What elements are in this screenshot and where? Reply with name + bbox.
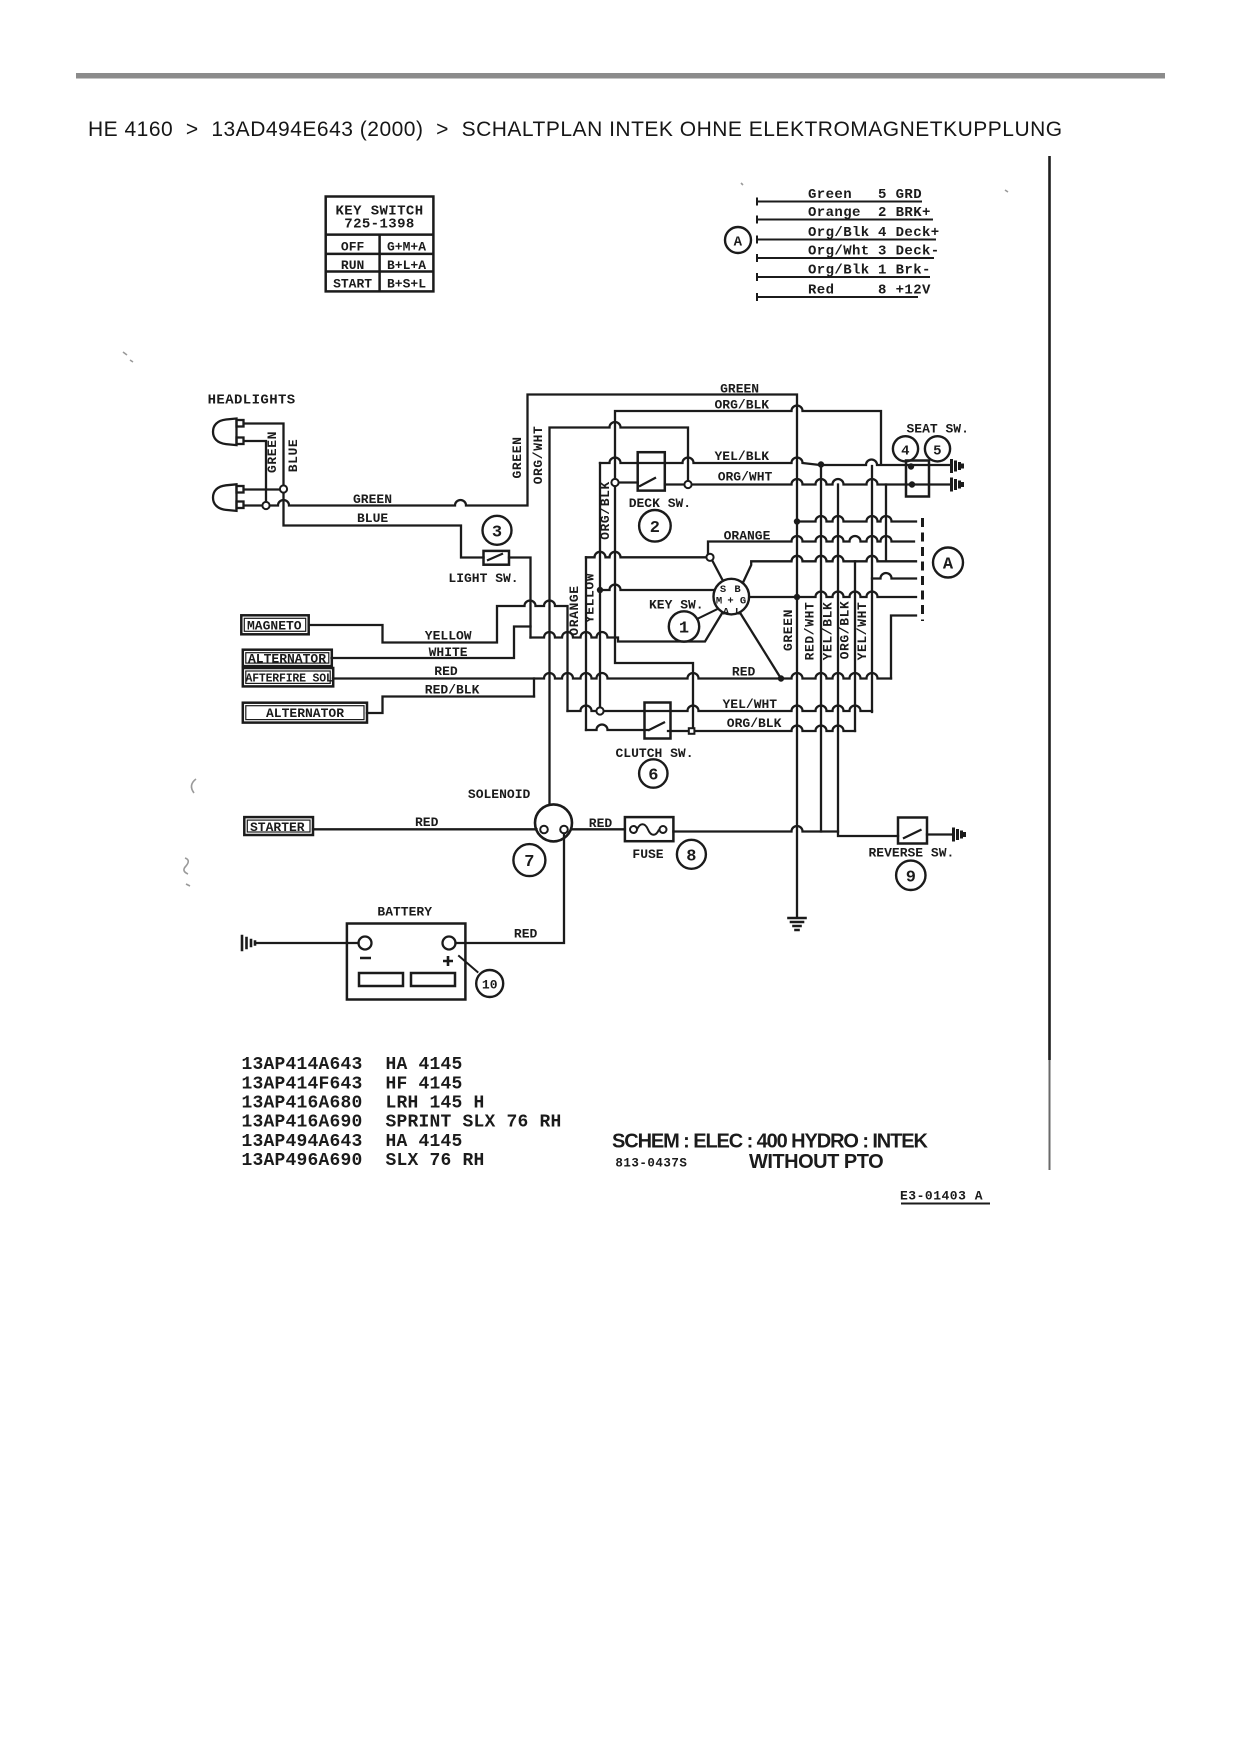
- svg-text:BATTERY: BATTERY: [377, 905, 432, 920]
- svg-text:ORG/BLK: ORG/BLK: [598, 481, 613, 540]
- svg-text:A: A: [734, 235, 743, 251]
- svg-text:ORANGE: ORANGE: [724, 529, 771, 544]
- svg-text:BLUE: BLUE: [357, 511, 388, 526]
- svg-text:REVERSE SW.: REVERSE SW.: [869, 846, 955, 861]
- svg-text:813-0437S: 813-0437S: [615, 1157, 687, 1171]
- svg-text:RED/BLK: RED/BLK: [425, 683, 480, 698]
- svg-text:HE 4160 > 13AD494E643 (2000): HE 4160 > 13AD494E643 (2000) > SCHALTPLA…: [88, 118, 1063, 141]
- svg-text:13AP494A643: 13AP494A643: [242, 1132, 363, 1152]
- svg-text:4 Deck+: 4 Deck+: [878, 225, 940, 241]
- svg-text:GREEN: GREEN: [265, 431, 280, 473]
- svg-text:Org/Blk: Org/Blk: [808, 225, 870, 241]
- svg-text:GREEN: GREEN: [720, 382, 759, 397]
- svg-text:AFTERFIRE SOL: AFTERFIRE SOL: [246, 673, 333, 686]
- svg-text:HA 4145: HA 4145: [386, 1055, 463, 1075]
- svg-text:ORANGE: ORANGE: [567, 585, 582, 635]
- svg-text:9: 9: [906, 868, 916, 887]
- svg-text:3 Deck-: 3 Deck-: [878, 244, 940, 260]
- svg-text:ORG/BLK: ORG/BLK: [727, 716, 782, 731]
- svg-text:RUN: RUN: [341, 258, 364, 273]
- svg-text:B+S+L: B+S+L: [387, 277, 426, 292]
- svg-text:ORG/BLK: ORG/BLK: [838, 601, 853, 660]
- svg-text:MAGNETO: MAGNETO: [247, 619, 302, 634]
- svg-text:FUSE: FUSE: [632, 847, 663, 862]
- svg-text:Red: Red: [808, 283, 834, 299]
- svg-text:S: S: [720, 584, 726, 596]
- svg-text:GREEN: GREEN: [353, 492, 392, 507]
- svg-text:DECK SW.: DECK SW.: [629, 496, 691, 511]
- svg-text:HF 4145: HF 4145: [386, 1074, 463, 1094]
- svg-text:ALTERNATOR: ALTERNATOR: [248, 652, 326, 667]
- svg-text:SLX 76 RH: SLX 76 RH: [386, 1151, 485, 1171]
- svg-text:4: 4: [901, 443, 910, 459]
- svg-text:8: 8: [686, 847, 696, 866]
- svg-text:G+M+A: G+M+A: [387, 240, 426, 255]
- svg-text:M: M: [716, 596, 722, 608]
- svg-text:A: A: [943, 556, 954, 575]
- svg-text:ORG/WHT: ORG/WHT: [531, 426, 546, 485]
- svg-text:SCHEM : ELEC : 400 HYDRO : INT: SCHEM : ELEC : 400 HYDRO : INTEK: [612, 1131, 928, 1153]
- svg-text:ORG/BLK: ORG/BLK: [715, 398, 770, 413]
- svg-text:OFF: OFF: [341, 240, 365, 255]
- svg-text:GREEN: GREEN: [781, 609, 796, 651]
- svg-text:KEY SW.: KEY SW.: [649, 598, 704, 613]
- svg-text:YEL/BLK: YEL/BLK: [821, 602, 836, 661]
- svg-text:STARTER: STARTER: [250, 820, 305, 835]
- svg-text:HA 4145: HA 4145: [386, 1132, 463, 1152]
- svg-text:RED/WHT: RED/WHT: [803, 602, 818, 661]
- svg-text:2: 2: [650, 519, 660, 538]
- svg-text:START: START: [333, 277, 372, 292]
- svg-text:ALTERNATOR: ALTERNATOR: [266, 706, 344, 721]
- svg-text:13AP496A690: 13AP496A690: [242, 1151, 363, 1171]
- svg-text:13AP414F643: 13AP414F643: [242, 1074, 363, 1094]
- svg-text:10: 10: [482, 978, 498, 993]
- svg-text:BLUE: BLUE: [286, 439, 301, 473]
- svg-text:CLUTCH SW.: CLUTCH SW.: [616, 746, 694, 761]
- svg-text:YEL/WHT: YEL/WHT: [855, 602, 870, 661]
- svg-text:WITHOUT PTO: WITHOUT PTO: [749, 1151, 883, 1173]
- svg-text:WHITE: WHITE: [429, 645, 468, 660]
- svg-text:Org/Wht: Org/Wht: [808, 244, 870, 260]
- svg-text:B+L+A: B+L+A: [387, 258, 426, 273]
- svg-text:SEAT SW.: SEAT SW.: [907, 422, 969, 437]
- svg-text:1: 1: [679, 620, 689, 639]
- svg-text:GREEN: GREEN: [510, 436, 525, 478]
- svg-text:725-1398: 725-1398: [344, 217, 414, 233]
- svg-text:RED: RED: [514, 927, 538, 942]
- svg-text:YELLOW: YELLOW: [425, 629, 472, 644]
- svg-text:5: 5: [933, 443, 942, 459]
- svg-text:7: 7: [524, 853, 534, 872]
- svg-text:LRH 145 H: LRH 145 H: [386, 1094, 485, 1114]
- svg-text:Green: Green: [808, 187, 852, 203]
- svg-text:E3-01403 A: E3-01403 A: [900, 1189, 983, 1204]
- svg-text:5 GRD: 5 GRD: [878, 187, 922, 203]
- svg-text:RED: RED: [732, 665, 756, 680]
- svg-text:13AP416A680: 13AP416A680: [242, 1094, 363, 1114]
- svg-text:RED: RED: [415, 815, 439, 830]
- svg-text:RED: RED: [434, 664, 458, 679]
- svg-text:A: A: [723, 607, 730, 619]
- svg-text:2 BRK+: 2 BRK+: [878, 205, 931, 221]
- svg-text:1 Brk-: 1 Brk-: [878, 263, 931, 279]
- svg-text:HEADLIGHTS: HEADLIGHTS: [208, 393, 296, 409]
- svg-text:6: 6: [648, 767, 658, 786]
- svg-text:YEL/BLK: YEL/BLK: [715, 449, 770, 464]
- svg-text:SOLENOID: SOLENOID: [468, 787, 531, 802]
- svg-text:YELLOW: YELLOW: [583, 573, 598, 623]
- svg-text:B: B: [734, 584, 741, 596]
- svg-text:YEL/WHT: YEL/WHT: [723, 697, 778, 712]
- svg-text:8 +12V: 8 +12V: [878, 283, 931, 299]
- svg-text:RED: RED: [589, 816, 613, 831]
- svg-text:L: L: [735, 607, 741, 619]
- svg-text:LIGHT SW.: LIGHT SW.: [448, 571, 518, 586]
- svg-text:ORG/WHT: ORG/WHT: [718, 470, 773, 485]
- svg-text:Org/Blk: Org/Blk: [808, 263, 870, 279]
- svg-text:13AP414A643: 13AP414A643: [242, 1055, 363, 1075]
- svg-text:Orange: Orange: [808, 205, 861, 221]
- svg-text:SPRINT SLX 76 RH: SPRINT SLX 76 RH: [386, 1113, 562, 1133]
- svg-text:13AP416A690: 13AP416A690: [242, 1113, 363, 1133]
- svg-text:3: 3: [492, 523, 502, 542]
